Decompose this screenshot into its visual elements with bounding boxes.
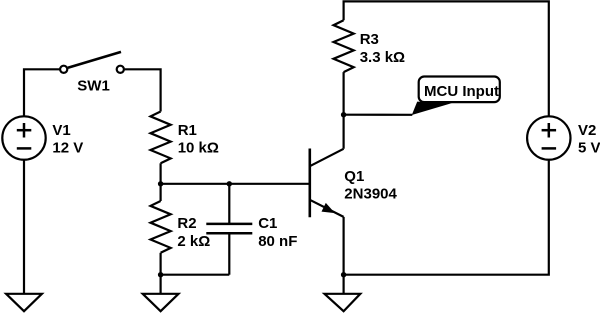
wire: V1 bottom to ground — [23, 160, 25, 294]
capacitor C1 — [206, 184, 252, 275]
label Q1 / 2N3904 — [344, 168, 397, 203]
svg-text:80 nF: 80 nF — [258, 233, 297, 250]
label C1 / 80 nF — [258, 215, 297, 250]
switch SW1 — [60, 52, 124, 73]
node dot (collector / MCU tap) — [341, 112, 346, 117]
ground (under Q1 emitter) — [325, 294, 361, 311]
wire: C1 bottom to R2 bottom node — [161, 274, 230, 276]
svg-text:R1: R1 — [178, 122, 197, 139]
svg-text:MCU Input: MCU Input — [424, 83, 499, 100]
resistor R1 — [151, 112, 171, 164]
svg-text:3.3 kΩ: 3.3 kΩ — [360, 49, 405, 66]
ground (under V1) — [6, 294, 42, 311]
label R3 / 3.3 kOhm — [360, 31, 405, 66]
node dot (emitter / bottom rail) — [341, 272, 346, 277]
svg-text:2N3904: 2N3904 — [344, 186, 397, 203]
node dot (R2/C1 bottom junction) — [158, 272, 163, 277]
svg-text:C1: C1 — [258, 215, 277, 232]
ground (under R2) — [143, 294, 179, 311]
wire: R1 bottom through node A to R2 top — [160, 163, 162, 201]
resistor R3 — [334, 20, 354, 72]
svg-text:SW1: SW1 — [77, 78, 110, 95]
wire: V1 top to switch left terminal — [24, 69, 60, 116]
label V1 / 12 V — [52, 122, 83, 156]
transistor Q1 — [310, 149, 344, 218]
label R2 / 2 kOhm — [177, 215, 210, 250]
wire: node to MCU flag pointer — [344, 114, 413, 116]
wire: switch right terminal to R1 top — [125, 69, 161, 111]
wire: R2 bottom to ground node — [160, 253, 162, 294]
net flag box MCU Input — [419, 77, 500, 103]
wire: node A to Q1 base — [161, 183, 310, 185]
node dot (C1 top tap) — [227, 181, 232, 186]
label V2 / 5 V — [578, 122, 600, 156]
wire: Q1 emitter to ground node — [343, 217, 345, 294]
wire: bottom rail emitter node to V2 bottom — [344, 160, 549, 275]
net flag pointer (MCU Input) — [412, 102, 452, 115]
voltage source V2 — [527, 116, 570, 159]
svg-text:R2: R2 — [177, 215, 196, 232]
svg-text:2 kΩ: 2 kΩ — [177, 233, 210, 250]
label R1 / 10 kOhm — [178, 122, 219, 157]
svg-text:R3: R3 — [360, 31, 379, 48]
svg-text:V2: V2 — [578, 122, 596, 139]
resistor R2 — [151, 201, 171, 253]
svg-text:5 V: 5 V — [578, 139, 600, 156]
svg-text:12 V: 12 V — [52, 139, 83, 156]
wire: top rail from R3 to V2 top — [344, 1, 549, 116]
voltage source V1 — [2, 116, 45, 159]
svg-text:10 kΩ: 10 kΩ — [178, 140, 219, 157]
svg-text:Q1: Q1 — [344, 168, 364, 185]
svg-text:V1: V1 — [52, 122, 70, 139]
wire: R3 bottom to collector node — [343, 72, 345, 149]
node A dot (R1/R2 junction) — [158, 181, 163, 186]
